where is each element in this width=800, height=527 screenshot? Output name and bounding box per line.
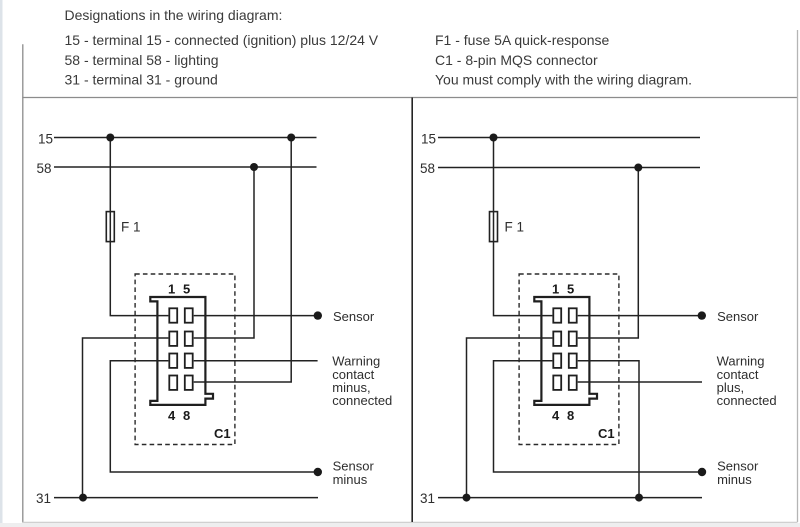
svg-text:C1 - 8-pin MQS connector: C1 - 8-pin MQS connector bbox=[435, 52, 598, 68]
svg-text:15: 15 bbox=[421, 132, 436, 147]
svg-text:15 - terminal 15 - connected (: 15 - terminal 15 - connected (ignition) … bbox=[65, 32, 379, 48]
svg-text:58: 58 bbox=[420, 161, 435, 176]
svg-text:8: 8 bbox=[183, 408, 190, 423]
svg-text:8: 8 bbox=[567, 408, 574, 423]
svg-text:5: 5 bbox=[183, 282, 190, 297]
svg-text:31: 31 bbox=[420, 491, 435, 506]
svg-text:15: 15 bbox=[38, 132, 53, 147]
svg-text:Sensor: Sensor bbox=[333, 309, 375, 324]
svg-text:4: 4 bbox=[552, 408, 560, 423]
svg-text:minus: minus bbox=[717, 472, 752, 487]
svg-text:connected: connected bbox=[332, 393, 392, 408]
svg-text:31: 31 bbox=[36, 491, 51, 506]
svg-text:4: 4 bbox=[168, 408, 176, 423]
svg-text:You must comply with the wirin: You must comply with the wiring diagram. bbox=[435, 72, 692, 88]
svg-text:31 - terminal 31 - ground: 31 - terminal 31 - ground bbox=[65, 72, 218, 88]
svg-text:58 - terminal 58 - lighting: 58 - terminal 58 - lighting bbox=[65, 52, 219, 68]
svg-text:C1: C1 bbox=[598, 426, 615, 441]
svg-text:Designations in the wiring dia: Designations in the wiring diagram: bbox=[65, 7, 283, 23]
svg-text:F1 - fuse 5A quick-response: F1 - fuse 5A quick-response bbox=[435, 32, 610, 48]
svg-text:1: 1 bbox=[168, 282, 175, 297]
svg-text:5: 5 bbox=[567, 282, 574, 297]
svg-text:minus: minus bbox=[333, 472, 368, 487]
svg-text:58: 58 bbox=[37, 161, 52, 176]
svg-text:Sensor: Sensor bbox=[717, 309, 759, 324]
svg-text:C1: C1 bbox=[214, 426, 231, 441]
svg-text:1: 1 bbox=[552, 282, 559, 297]
svg-text:connected: connected bbox=[717, 393, 777, 408]
svg-text:F 1: F 1 bbox=[505, 220, 525, 235]
svg-text:F 1: F 1 bbox=[121, 220, 141, 235]
